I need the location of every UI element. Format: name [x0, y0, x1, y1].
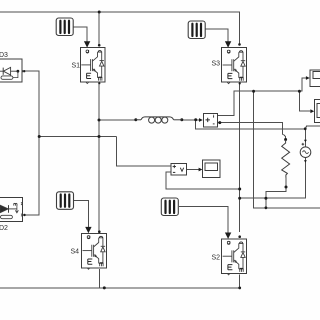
- svg-text:S1: S1: [72, 62, 81, 69]
- svg-text:S4: S4: [71, 249, 80, 256]
- svg-text:S3: S3: [212, 61, 221, 68]
- svg-text:S2: S2: [212, 255, 221, 262]
- svg-text:D2: D2: [0, 225, 8, 232]
- svg-text:D3: D3: [0, 52, 8, 59]
